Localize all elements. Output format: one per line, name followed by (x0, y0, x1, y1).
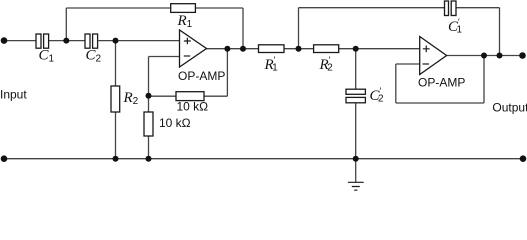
svg-text:Input: Input (0, 88, 27, 102)
wire 10k ground resistor to bottom rail (148, 136, 150, 159)
wire 10k feedback resistor to riser (204, 95, 227, 97)
wire U2 feedback left vertical (395, 64, 397, 103)
node U2 output rail junction (497, 53, 503, 59)
resistor 10k feedback (176, 92, 204, 101)
wire input line (4, 40, 36, 42)
wire rail 1 left of R1 (66, 7, 170, 9)
capacitor C1p plate left (445, 1, 449, 16)
op-amp U1 plus symbol (184, 38, 191, 45)
node U2 output feedback junction (481, 53, 487, 59)
wire rail 1 down to output node (242, 8, 244, 49)
op-amp U2 minus symbol (423, 63, 430, 65)
wire junction to C2 (66, 40, 85, 42)
node A minus input junction (146, 93, 152, 99)
capacitor C1 plate right (44, 34, 49, 48)
output terminal dot (519, 52, 526, 59)
op-amp U2 triangle (420, 37, 447, 75)
wire node to C2p top (355, 49, 357, 89)
capacitor C2p plate bottom (346, 97, 365, 102)
svg-text:Output: Output (492, 101, 527, 115)
wire U1 output (207, 48, 259, 50)
resistor R2 (111, 86, 120, 112)
wire R2p to U2 plus input (339, 48, 420, 50)
wire rail 2 left of C1p (299, 7, 445, 9)
wire U2 output (447, 55, 523, 57)
svg-text:OP-AMP: OP-AMP (418, 76, 465, 90)
wire U2 minus input (396, 63, 420, 65)
capacitor C2p plate top (346, 89, 365, 94)
wire R2 top (115, 41, 117, 86)
wire R2 bottom to bottom rail (115, 112, 117, 159)
wire R1p to R2p (284, 48, 314, 50)
svg-text:OP-AMP: OP-AMP (178, 69, 225, 83)
node ground bottom rail junction (353, 156, 359, 162)
bottom rail left terminal dot (1, 155, 8, 162)
capacitor C1 plate left (36, 34, 41, 48)
wire bottom rail (4, 158, 523, 160)
wire C1 to junction (49, 40, 66, 42)
ground symbol (348, 182, 364, 190)
resistor 10k to ground (144, 112, 153, 136)
op-amp U2 plus symbol (423, 46, 430, 53)
node 10k bottom rail junction (146, 156, 152, 162)
resistor R1p (259, 45, 285, 53)
wire node between R1p R2p up to rail 2 (298, 8, 300, 49)
node R2 bottom rail junction (113, 156, 119, 162)
op-amp U1 triangle (180, 30, 207, 67)
resistor R1 (171, 4, 196, 13)
wire node A to 10k feedback resistor (149, 95, 177, 97)
wire ground stem (355, 159, 357, 182)
node U1 output feedback junction (224, 46, 230, 52)
wire riser up to U1 output node (226, 49, 228, 96)
node U1 output rail junction (240, 46, 246, 52)
svg-text:10 kΩ: 10 kΩ (177, 100, 209, 114)
wire C2 to op-amp U1 plus input (98, 40, 179, 42)
capacitor C2 plate left (85, 34, 90, 48)
wire rail 1 right of R1 (195, 7, 243, 9)
wire node A down to 10k ground resistor (148, 96, 150, 112)
wire U2 feedback right vertical up to output (483, 56, 485, 104)
wire C2p bottom to bottom rail (355, 103, 357, 159)
op-amp U1 minus symbol (184, 55, 190, 57)
wire rail 2 down to output node (499, 8, 501, 56)
svg-text:10 kΩ: 10 kΩ (159, 116, 191, 130)
node after C1 (63, 38, 69, 44)
input terminal dot (1, 37, 8, 44)
wire U1 minus input (149, 56, 180, 58)
wire feedback rail 1 vertical from node after C1 (65, 8, 67, 41)
node R2p C2p junction (353, 46, 359, 52)
node after C2 (113, 38, 119, 44)
capacitor C2 plate right (93, 34, 98, 48)
node between R1p and R2p (296, 46, 302, 52)
wire rail 2 right of C1p (456, 7, 500, 9)
bottom rail right terminal dot (520, 155, 527, 162)
wire U2 feedback bottom (396, 102, 484, 104)
resistor R2p (314, 45, 339, 53)
wire minus input down to node A (148, 57, 150, 96)
capacitor C1p plate right (451, 1, 456, 16)
